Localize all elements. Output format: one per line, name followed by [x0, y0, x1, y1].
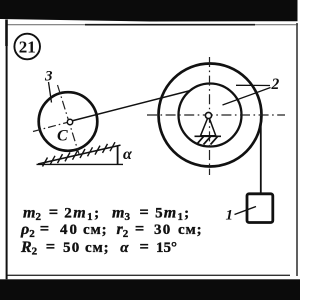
variant badge circle 21 — [14, 34, 40, 60]
leader line of label 2 to inner circle — [223, 88, 271, 106]
incline ground base line — [37, 163, 124, 165]
pulley vertical axis (dash-dot) — [209, 57, 211, 175]
leader line of label 1 — [235, 207, 257, 215]
incline hatching — [43, 142, 116, 166]
svg-text:2m1;: 2m1; — [64, 204, 100, 223]
wheel 3 axis perpendicular to incline (dash-dot) — [58, 85, 80, 154]
pivot triangle support — [201, 116, 216, 136]
frame top rule — [6, 24, 298, 26]
pulley horizontal axis (dash-dot) — [147, 114, 285, 116]
svg-text:50: 50 — [63, 240, 80, 256]
leader line of label 3 — [49, 82, 52, 103]
svg-text:см;: см; — [83, 222, 108, 238]
svg-text:=: = — [135, 219, 144, 238]
hub C of wheel 3 — [67, 119, 72, 124]
svg-text:2: 2 — [271, 76, 280, 93]
svg-text:40: 40 — [60, 222, 79, 238]
weight 1 box — [247, 194, 273, 223]
svg-text:1: 1 — [226, 208, 234, 224]
given data text line 3 — [20, 237, 177, 258]
leader line of label 2 to rim — [236, 84, 270, 86]
svg-text:5m1;: 5m1; — [155, 204, 190, 223]
frame left rule — [5, 20, 8, 47]
pivot hatching — [197, 137, 218, 145]
wheel 3 axis parallel to incline (dash-dot) — [33, 122, 70, 132]
svg-text:30: 30 — [154, 222, 171, 238]
svg-text:C: C — [57, 128, 68, 145]
svg-text:=: = — [40, 219, 49, 238]
cord from pulley 2 to weight 1 — [260, 116, 262, 194]
svg-text:=: = — [49, 202, 58, 221]
svg-text:см;: см; — [85, 240, 110, 256]
cord from wheel 3 to pulley 2 — [70, 91, 191, 122]
incline angle vertical side — [117, 146, 119, 165]
svg-text:α: α — [123, 146, 133, 163]
frame right rule — [296, 23, 298, 276]
frame top black band — [0, 0, 298, 22]
pulley 2 outer circle — [159, 64, 262, 167]
frame bottom black band — [0, 279, 300, 300]
svg-text:α: α — [120, 240, 129, 256]
svg-text:21: 21 — [19, 38, 36, 57]
svg-text:=: = — [46, 237, 55, 256]
pivot pin — [205, 112, 211, 118]
given data text line 1 — [23, 202, 190, 223]
svg-text:см;: см; — [178, 222, 203, 238]
svg-text:=: = — [140, 237, 149, 256]
pivot base line — [195, 135, 222, 137]
frame bottom rule — [6, 274, 290, 276]
given data text line 2 — [20, 219, 203, 240]
pulley 2 inner circle — [179, 84, 242, 147]
svg-text:15°: 15° — [156, 240, 177, 256]
wheel 3 — [39, 92, 98, 151]
incline surface line — [38, 145, 121, 164]
